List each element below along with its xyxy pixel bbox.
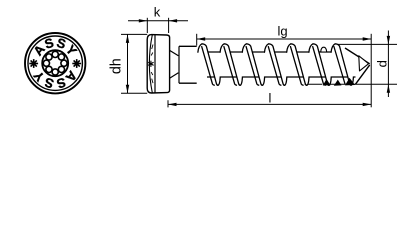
svg-text:d: d — [375, 60, 390, 67]
svg-text:lg: lg — [277, 24, 287, 39]
svg-text:k: k — [154, 5, 161, 20]
svg-text:dh: dh — [108, 58, 124, 74]
svg-text:l: l — [269, 90, 272, 105]
